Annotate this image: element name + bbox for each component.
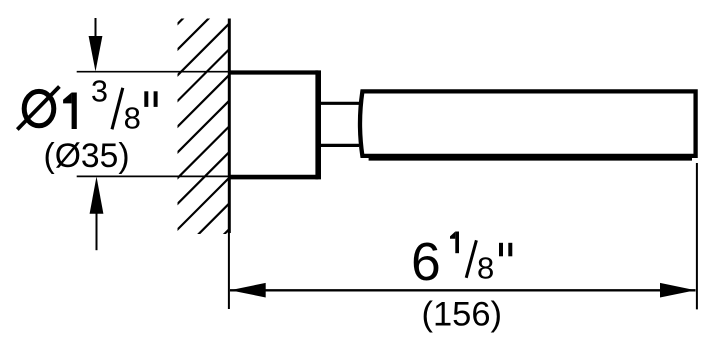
neck (connector) [319, 102, 359, 105]
extension line left (length dimension) [228, 233, 230, 309]
label diameter inch marks [144, 91, 157, 107]
svg-text:8: 8 [477, 251, 494, 286]
svg-text:8: 8 [124, 100, 141, 135]
dimension extension line bottom (diameter) [77, 175, 229, 177]
length dimension line [230, 289, 696, 291]
bar bottom shadow line [369, 158, 692, 161]
extension line right (length dimension) [696, 163, 698, 309]
label length fraction slash [466, 240, 476, 277]
wall hatching [176, 0, 229, 282]
svg-text:(Ø35): (Ø35) [44, 137, 130, 175]
label diameter digit 1 [63, 93, 77, 130]
label length inch marks [499, 243, 512, 256]
arrow right [660, 283, 696, 298]
holder bar (cylinder body) [360, 91, 696, 155]
svg-text:3: 3 [91, 75, 108, 109]
label diameter fraction slash [112, 88, 123, 130]
label diameter inches [17, 87, 59, 130]
svg-text:6: 6 [411, 233, 441, 292]
dimension arrow up (bottom) [90, 177, 104, 251]
arrow left [230, 283, 266, 298]
dimension extension line top (diameter) [77, 71, 229, 73]
wall flange (mounting base) [229, 70, 318, 74]
wall line [228, 19, 231, 234]
label length fraction numerator 1 [450, 232, 459, 254]
dimension arrow down (top) [89, 18, 103, 72]
svg-text:(156): (156) [422, 296, 503, 334]
